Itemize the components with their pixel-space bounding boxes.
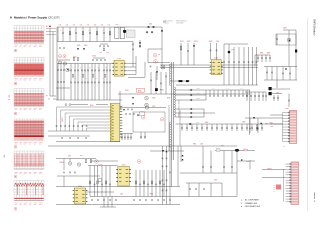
svg-text:P.G: P.G	[273, 189, 275, 191]
svg-text:D952: D952	[197, 93, 201, 95]
svg-text:C5: C5	[48, 99, 50, 101]
svg-text:R915: R915	[90, 105, 94, 107]
svg-text:D891: D891	[283, 27, 287, 29]
svg-text:M6: M6	[3, 155, 5, 157]
svg-text:D971: D971	[68, 156, 71, 158]
svg-text:D901: D901	[149, 23, 152, 25]
svg-text:▼: ▼	[241, 205, 243, 208]
svg-text:C992: C992	[200, 144, 203, 146]
svg-text:D863: D863	[246, 161, 249, 163]
svg-text:D953: D953	[197, 98, 201, 100]
svg-text:IC951: IC951	[78, 186, 82, 188]
svg-text:: PRIMARY GND: : PRIMARY GND	[244, 202, 258, 205]
svg-text:R933: R933	[167, 97, 171, 99]
svg-text:D992: D992	[221, 145, 224, 147]
svg-text:R930: R930	[138, 90, 142, 92]
svg-text:IC902: IC902	[117, 58, 121, 60]
svg-text:C91: C91	[101, 24, 104, 26]
svg-text:D962: D962	[205, 122, 209, 124]
svg-text:C91: C91	[94, 24, 97, 26]
svg-text:CN803: CN803	[285, 108, 290, 110]
svg-text:C23-0480: C23-0480	[176, 22, 183, 24]
svg-text:D905: D905	[77, 45, 81, 47]
svg-text:C991: C991	[214, 180, 217, 182]
svg-text:(CP/C-2037P): (CP/C-2037P)	[48, 15, 60, 19]
svg-text:C968: C968	[242, 122, 246, 124]
svg-text:CN901: CN901	[61, 118, 63, 123]
svg-text:D930: D930	[152, 97, 156, 99]
svg-text:P.G: P.G	[273, 187, 275, 189]
svg-text:IC952: IC952	[122, 164, 126, 166]
svg-text:D921: D921	[180, 41, 184, 43]
svg-text:C91: C91	[108, 24, 111, 26]
svg-text:D961: D961	[196, 122, 200, 124]
svg-text:D923: D923	[194, 41, 198, 43]
svg-text:C927: C927	[216, 41, 220, 43]
svg-text:C913: C913	[106, 52, 109, 54]
svg-text:C955: C955	[212, 88, 215, 90]
svg-text:R985: R985	[150, 193, 153, 195]
svg-text:R891: R891	[260, 52, 264, 54]
svg-text:: SECONDARY GND: : SECONDARY GND	[244, 205, 261, 208]
svg-text:C912: C912	[99, 52, 102, 54]
svg-text:D968: D968	[265, 123, 268, 125]
svg-text:C981: C981	[120, 193, 123, 195]
svg-text:C91: C91	[87, 24, 90, 26]
svg-text:D951: D951	[197, 88, 201, 90]
svg-text:D906: D906	[84, 45, 88, 47]
svg-text:F901: F901	[163, 22, 166, 24]
svg-text:C957: C957	[240, 88, 243, 90]
svg-text:P501: P501	[270, 126, 273, 128]
svg-text:L901: L901	[115, 24, 118, 26]
svg-text:B2: B2	[46, 95, 48, 97]
svg-text:R892: R892	[267, 52, 271, 54]
svg-text:Matebist / Power Supply: Matebist / Power Supply	[14, 15, 47, 19]
svg-text:P.G: P.G	[273, 191, 275, 193]
svg-text:R971: R971	[80, 155, 83, 157]
svg-text:SMPS (Service): SMPS (Service)	[313, 19, 316, 36]
svg-text:R991: R991	[193, 144, 196, 146]
svg-text:RV901: RV901	[60, 162, 65, 164]
svg-text:Q911: Q911	[152, 106, 156, 108]
svg-text:Chassis 19: Chassis 19	[313, 192, 315, 203]
svg-text:Q921: Q921	[231, 49, 235, 51]
svg-text:C91: C91	[59, 24, 62, 26]
svg-text:C91: C91	[66, 24, 69, 26]
svg-text:C956: C956	[226, 88, 229, 90]
svg-text:D922: D922	[187, 41, 191, 43]
svg-text:R925: R925	[209, 41, 213, 43]
svg-text:C91: C91	[73, 24, 76, 26]
svg-text:IC901: IC901	[92, 55, 96, 57]
svg-text:RT91: RT91	[160, 90, 164, 92]
svg-text:: AC COMPONENT: : AC COMPONENT	[244, 199, 259, 202]
svg-text:P.G: P.G	[273, 185, 275, 187]
svg-text:C91: C91	[80, 24, 83, 26]
svg-text:C920: C920	[125, 90, 129, 92]
